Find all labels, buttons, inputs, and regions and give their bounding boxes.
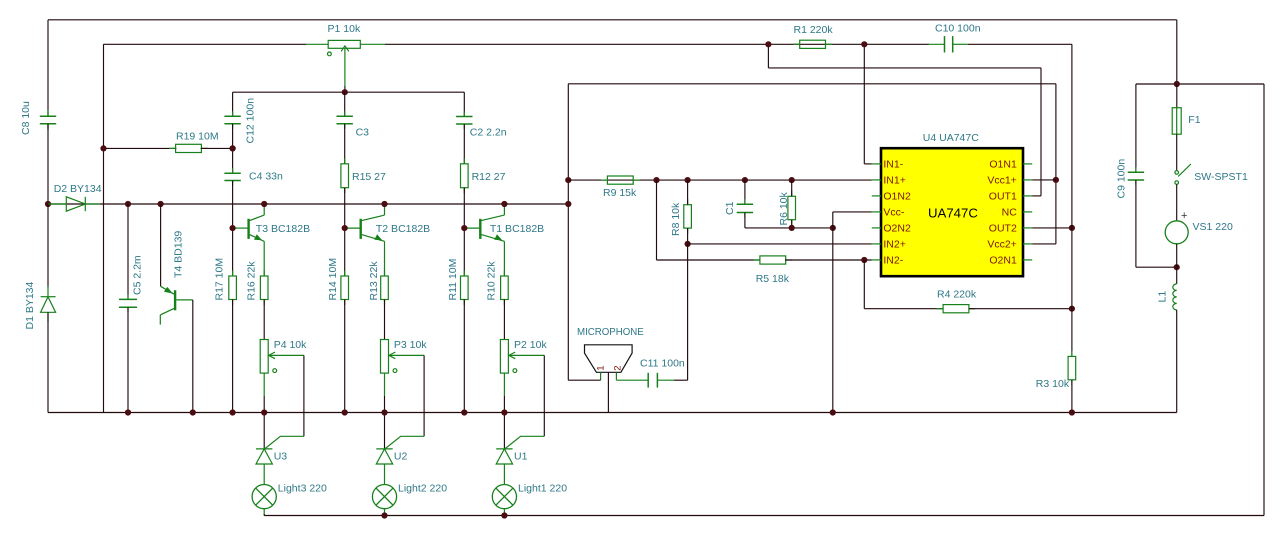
svg-text:T4 BD139: T4 BD139 [172,231,184,278]
resistor R9 [601,179,608,181]
wire left border mid (48,123.8)-(48,204) [47,124,49,204]
junction T3 collector node [261,201,267,207]
wire C10 rail drop (1071.9,44.3)-(1071.9,308.7) [1071,44,1073,308]
junction R1 right node [861,41,867,47]
svg-text:OUT2: OUT2 [989,223,1017,235]
microphone pin 2 lead [615,372,617,380]
svg-text:F1: F1 [1188,114,1200,126]
wire OUT1 rail (768.4,67.9)-(1041,67.9) [768,67,1041,69]
transistor T1 emitter wire [503,241,505,276]
svg-text:U1: U1 [514,451,528,463]
potentiometer P3 [381,340,389,374]
junction R19/C12 node [230,145,236,151]
op-amp U4 pin IN2- lead [872,259,881,261]
capacitor C4 [232,168,234,173]
svg-text:C1: C1 [724,201,736,215]
junction Vcc1+ node [1053,177,1059,183]
wire C1 bottom lead [744,213,746,228]
junction T4 base top node [158,201,164,207]
wire C4 down through main rail to T3 base node [232,181,234,229]
svg-text:Light1 220: Light1 220 [518,483,567,495]
svg-text:R13 22k: R13 22k [368,261,380,301]
wire P1 right wire (385,44.3)-(929,44.3) [385,43,929,45]
inductor L1 [1173,284,1177,310]
wire R6 top lead [791,180,793,196]
wire lamp return wire (264.2,515.5)-(1264,515.5) [264,515,1264,517]
op-amp U4 pin Vcc- lead [872,211,881,213]
svg-text:T1 BC182B: T1 BC182B [490,223,544,235]
wire inner top vertical (103.5,44.3)-(103.5,412.5) [103,44,105,412]
junction T2 base node [342,225,348,231]
resistor R1 [793,43,800,45]
thyristor U3 [256,449,272,485]
junction R6 bottom node [789,225,795,231]
svg-text:R5 18k: R5 18k [756,273,790,285]
transistor T2 collector wire [384,204,386,215]
wire T4 base wire down [160,204,162,286]
svg-text:R16 22k: R16 22k [245,261,257,301]
wire Vcc1+ link [1032,179,1056,181]
potentiometer P1 [328,40,360,48]
svg-text:2: 2 [612,366,623,371]
wire C5 lower lead [127,307,129,412]
svg-text:MICROPHONE: MICROPHONE [577,327,644,338]
junction C5 top node [125,201,131,207]
junction P2 bus [501,409,507,415]
wire C9 bottom lead [1135,180,1137,267]
potentiometer P2 [260,340,268,374]
fuse F1 [1172,108,1181,135]
wire R 22k to P (ch2) [384,300,386,340]
wire C5 upper lead [127,204,129,299]
junction R3 bus [1069,409,1075,415]
svg-text:U2: U2 [394,451,408,463]
wire C2-R12 link [463,124,465,164]
op-amp U4 pin Vcc1+ lead [1023,179,1032,181]
wire Vcc2+ link [1032,243,1056,245]
wire R 10M bottom to bus (ch3) [232,300,234,413]
svg-text:IN2-: IN2- [883,255,903,267]
junction T2 collector node [381,201,387,207]
wire top-right drop (1176.8,19.8)-(1176.8,84) [1176,20,1178,84]
wire VS1 to node [1176,244,1178,267]
svg-text:P2 10k: P2 10k [514,339,547,351]
svg-text:R10 22k: R10 22k [486,261,498,301]
wire P4 bottom to bus [503,396,505,413]
lamp Light1 [492,485,516,509]
svg-text:UA747C: UA747C [928,206,978,221]
svg-text:O1N1: O1N1 [989,159,1017,171]
wire supply top (1135.9,84)-(1264,84) [1136,83,1264,85]
wire P4 wiper down [543,355,545,436]
thyristor U2 gate wire [385,436,424,448]
junction R1 left node [765,41,771,47]
potentiometer P1 right lead [360,43,385,45]
wire P2 wiper down [303,355,305,436]
microphone MICROPHONE [585,345,633,373]
wire C11 right wire [674,379,688,381]
wire mic pin1 wire (568.3,380.2)-(600.6,380.2) [568,379,600,381]
capacitor C5 [127,294,129,299]
junction P3 bus [381,409,387,415]
junction OUT2 node [1069,225,1075,231]
wire switch to VS1 [1176,184,1178,220]
svg-text:R1 220k: R1 220k [794,24,834,36]
wire C1 top lead [744,180,746,204]
svg-text:O2N1: O2N1 [989,255,1017,267]
wire left border above D1 [47,204,49,288]
capacitor C3 [344,111,346,116]
microphone pin 1 lead [600,372,602,380]
junction C5 bus [125,409,131,415]
svg-text:IN2+: IN2+ [883,239,905,251]
svg-text:T2 BC182B: T2 BC182B [376,223,430,235]
junction R5 branch node [653,177,659,183]
wire C9 bottom link (1135.9,267.2)-(1176.7,267.2) [1136,266,1177,268]
capacitor C10 [945,36,953,52]
wire C3-R15 link [344,124,346,164]
wire C12 top lead [232,92,234,116]
wire R3 top lead [1071,309,1073,357]
junction R8 top node [685,177,691,183]
op-amp U4 pin O2N1 lead [1023,259,1032,261]
wire C10 right wire (967,44.3)-(1071.9,44.3) [968,43,1072,45]
wire node to L1 [1176,267,1178,284]
thyristor U3 gate wire [265,436,304,448]
junction R19 right node [230,145,236,151]
svg-text:C4 33n: C4 33n [249,171,283,183]
wire R6 bottom lead [791,220,793,228]
svg-text:C5 2.2m: C5 2.2m [131,255,143,295]
svg-text:R12 27: R12 27 [472,171,506,183]
wire C1/R6 bottom wire (744.9,227.9)-(832.8,227.9) [745,227,833,229]
capacitor C1 [744,199,746,204]
resistor R4 [937,308,944,310]
potentiometer P4 wiper arrow [508,352,544,372]
wire bus to U3 anode [263,413,265,449]
wire R12 down through main rail to T1 base [463,188,465,228]
thyristor U1 gate wire [505,436,544,448]
transistor T1 collector wire [503,204,505,215]
wire ground bus (48,412.5)-(1176.7,412.5) [48,412,1177,414]
wire C3 top lead [344,92,346,116]
lamp Light3 bottom lead [263,509,265,516]
svg-text:C9 100n: C9 100n [1116,159,1128,199]
wire OUT2 link [1032,227,1072,229]
resistor R16 [263,271,265,277]
voltage source VS1 [1165,221,1188,244]
svg-text:P1 10k: P1 10k [328,23,361,35]
capacitor C10 left lead [928,43,944,45]
lamp Light1 bottom lead [503,509,505,516]
resistor R12 [463,158,465,164]
junction supply top node [1174,81,1180,87]
svg-text:R3 10k: R3 10k [1036,378,1070,390]
svg-text:Light2 220: Light2 220 [398,483,447,495]
svg-text:D1 BY134: D1 BY134 [24,281,36,329]
svg-text:+: + [1181,210,1187,222]
svg-text:U4 UA747C: U4 UA747C [923,132,979,144]
op-amp U4 pin Vcc2+ lead [1023,243,1032,245]
diode D2 [48,197,100,211]
wire R 22k to P (ch1) [503,300,505,340]
wire T1 base column down to R11 [463,228,465,276]
svg-text:Vcc2+: Vcc2+ [987,239,1016,251]
transistor T3 base lead [233,227,249,229]
svg-text:R17 10M: R17 10M [214,258,226,301]
wire C9 top lead [1135,84,1137,172]
svg-text:C11 100n: C11 100n [640,358,685,370]
wire R4 right wire [969,308,1072,310]
svg-text:U3: U3 [274,451,288,463]
transistor T3 [249,215,265,241]
potentiometer P1 left lead [306,43,328,45]
junction R19 left node [100,145,106,151]
svg-text:IN1+: IN1+ [883,175,905,187]
wire lamp3 corner [263,514,265,516]
svg-text:R14 10M: R14 10M [327,258,339,301]
junction IN2- node [861,257,867,263]
svg-text:C2 2.2n: C2 2.2n [470,126,507,138]
transistor T2 base lead [345,227,361,229]
transistor T2 [361,215,385,241]
junction R8/IN2+ node [685,241,691,247]
resistor R6 [791,191,793,197]
capacitor C12 [232,111,234,116]
wire C2 top lead [463,92,465,116]
wire inner top horizontal (103.5,44.3)-(305,44.3) [104,43,307,45]
wire Vcc- riser (832.8,211.9)-(832.8,227.9) [832,212,834,228]
wire left border below D1 [47,312,49,412]
svg-text:R9 15k: R9 15k [603,187,637,199]
wire L1 to bus corner [1176,310,1178,413]
wire R 22k to P (ch3) [263,300,265,340]
junction R4 right node [1069,306,1075,312]
resistor R15 [344,158,346,164]
capacitor C2 [463,112,465,117]
wire OUT1 link [1032,195,1041,197]
wire F1 to switch [1176,134,1178,170]
wire R4 left wire [864,308,943,310]
wire R19 left wire [104,147,177,149]
svg-text:C3: C3 [356,126,370,138]
transistor T4 [160,286,193,324]
junction Vcc- branch node [830,225,836,231]
op-amp U4 body [881,148,1023,276]
wire IN1- riser (864.3,44.3)-(864.3,163.9) [863,44,865,164]
capacitor C8 leads [47,110,49,116]
junction T1 base node [461,225,467,231]
junction VS1 bottom node [1174,264,1180,270]
op-amp U4 pin O2N2 lead [872,227,881,229]
transistor T1 [480,215,504,241]
junction gnd drop bus [830,409,836,415]
svg-text:C8 10u: C8 10u [20,101,32,135]
svg-text:R19 10M: R19 10M [176,131,219,143]
wire R8 top lead [687,180,689,205]
resistor R10 [503,271,505,277]
wire R3 bottom lead [1071,380,1073,413]
resistor R3 [1071,351,1073,357]
svg-text:OUT1: OUT1 [989,191,1017,203]
wire vcc rail horizontal (568.3,83.8)-(1055.9,83.8) [568,83,1056,85]
svg-text:D2 BY134: D2 BY134 [54,183,102,195]
wire P2 bottom to bus [263,396,265,413]
op-amp U4 pin NC lead [1023,211,1032,213]
wire T4 collector wire down to bus [192,300,194,413]
wire bus to U1 anode [503,413,505,449]
potentiometer P4 [500,340,508,374]
svg-text:IN1-: IN1- [883,159,903,171]
wire right border (1264,84)-(1264,515.5) [1263,84,1265,516]
wire supply drop to F1 [1176,84,1178,108]
lamp Light2 [372,485,396,509]
wire Vcc- wire (832.8,211.9)-(871.8,211.9) [833,211,872,213]
junction P1 wiper / C3 node [342,89,348,95]
capacitor C8 [47,111,49,116]
svg-text:Light3 220: Light3 220 [278,483,327,495]
potentiometer P3 wiper arrow [389,352,425,372]
wire R8 bottom lead [687,228,689,244]
wire top border (48,19.8)-(1176.8,19.8) [48,19,1177,21]
resistor R8 [687,199,689,205]
wire R5 branch drop (656.5,180.1)-(656.5,260) [656,180,658,260]
wire R5 right wire [785,259,872,261]
wire left border upper (48,19.8)-(48,116.3) [47,20,49,117]
wire T3 base column down to R17 [232,228,234,276]
junction R6 top node [789,177,795,183]
svg-text:O2N2: O2N2 [883,223,911,235]
wire R19 right wire [201,147,233,149]
potentiometer P1 wiper arrow [328,46,349,86]
wire filter top rail (232.6,92.2)-(464.3,92.2) [233,91,465,93]
op-amp U4 pin O1N1 lead [1023,163,1032,165]
resistor R11 [463,271,465,277]
wire main rail (48,204)-(568.3,204) [48,203,568,205]
op-amp U4 pin O1N2 lead [872,195,881,197]
svg-text:SW-SPST1: SW-SPST1 [1194,171,1248,183]
svg-text:VS1 220: VS1 220 [1193,221,1233,233]
wire R1 left drop (768.4,44.3)-(768.4,67.9) [767,44,769,68]
wire C12-C4 link [232,124,234,173]
op-amp U4 pin OUT1 lead [1023,195,1032,197]
wire IN2- drop to R4 (864.3,260)-(864.3,308.7) [863,260,865,309]
junction lamp2 return node [381,512,387,518]
svg-text:R6 10k: R6 10k [778,191,790,225]
thyristor U2 [376,449,392,485]
svg-text:NC: NC [1002,207,1018,219]
op-amp U4 pin IN1- lead [872,163,881,165]
svg-text:L1: L1 [1156,291,1168,303]
svg-text:C10 100n: C10 100n [935,23,981,35]
svg-text:O1N2: O1N2 [883,191,911,203]
diode D1 [41,286,56,322]
wire P1 wiper stem to node [344,86,346,92]
svg-text:P4 10k: P4 10k [274,339,307,351]
junction T4 bus [190,409,196,415]
op-amp U4 pin OUT2 lead [1023,227,1032,229]
wire IN1- link [864,163,872,165]
resistor R5 [753,259,760,261]
transistor T2 emitter wire [384,241,386,276]
resistor R13 [384,271,386,277]
transistor T1 base lead [464,227,480,229]
switch SW-SPST1 [1175,164,1191,184]
capacitor C10 right lead [953,43,968,45]
transistor T3 emitter wire [263,241,265,276]
resistor R17 [232,271,234,277]
junction R14 bus [342,409,348,415]
wire IN2+ wire (687.6,243.9)-(871.8,243.9) [688,243,872,245]
resistor R19 [169,147,176,149]
junction R17 bus [230,409,236,415]
lamp Light3 [252,485,276,509]
svg-text:1: 1 [596,366,607,371]
potentiometer P2 bottom lead [263,373,265,396]
potentiometer P4 bottom lead [503,373,505,396]
wire R5 left wire [657,259,761,261]
svg-text:R8 10k: R8 10k [670,202,682,236]
wire R8 node down to C11 [687,244,689,380]
junction IN1+ rail left node [565,177,571,183]
junction R11 bus [461,409,467,415]
op-amp U4 pin IN1+ lead [872,179,881,181]
wire P3 wiper down [423,355,425,436]
svg-text:C12 100n: C12 100n [245,98,257,144]
potentiometer P2 wiper arrow [268,352,304,372]
svg-text:Vcc1+: Vcc1+ [987,175,1016,187]
wire P3 bottom to bus [384,396,386,413]
svg-text:R4 220k: R4 220k [937,289,977,301]
junction C1 top node [742,177,748,183]
capacitor C11 [648,373,657,388]
svg-text:T3 BC182B: T3 BC182B [256,223,310,235]
wire bus to U2 anode [384,413,386,449]
junction main rail end node [565,201,571,207]
capacitor C11 right lead [657,379,674,381]
transistor T3 collector wire [263,204,265,215]
junction lamp1 return node [501,512,507,518]
svg-text:Vcc-: Vcc- [883,207,905,219]
capacitor C11 left lead [616,379,648,381]
wire R 10M bottom to bus (ch2) [344,300,346,413]
junction T3 base node [230,225,236,231]
capacitor C9 [1135,167,1137,172]
junction main rail / left border / D1 node [45,201,51,207]
wire T2 base column down to R14 [344,228,346,276]
resistor R14 [344,271,346,277]
wire R 10M bottom to bus (ch1) [463,300,465,413]
wire ground drop (832.8,227.9)-(832.8,412.5) [832,228,834,413]
wire vcc drop (568.3,83.8)-(568.3,380.2) [567,84,569,380]
wire mic body wire down to bus [607,372,609,412]
lamp Light2 bottom lead [384,509,386,516]
thyristor U1 [496,449,512,485]
wire vcc drop right (1055.9,83.8)-(1055.9,243.9) [1055,84,1057,244]
potentiometer P3 bottom lead [384,373,386,396]
svg-text:R15 27: R15 27 [352,171,386,183]
wire R15 down through main rail to T2 base [344,188,346,228]
wire IN1+ rail (568.3,180.1)-(871.8,180.1) [568,179,872,181]
junction T1 collector node [501,201,507,207]
svg-text:R11 10M: R11 10M [447,259,459,301]
junction P4 bus [261,409,267,415]
op-amp U4 pin IN2+ lead [872,243,881,245]
wire OUT1 drop (1041,67.9)-(1041,195.9) [1040,68,1042,196]
svg-text:P3 10k: P3 10k [394,339,427,351]
